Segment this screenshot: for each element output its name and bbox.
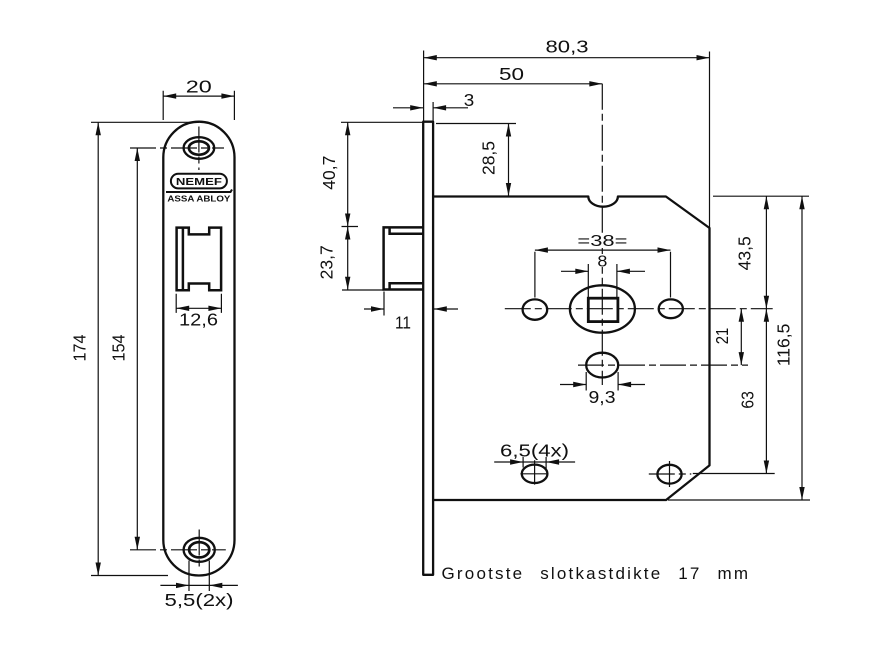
spindle square 8mm [588,298,618,321]
faceplate front plate outline [163,122,234,576]
dim 63 bottom extension [693,473,775,475]
dim 80,3 line [424,57,710,59]
spindle follower ellipse [570,285,635,332]
right M4 hole [659,299,683,318]
lower hole 9,3 [586,353,618,378]
latch cutout inner edge [182,228,185,291]
svg-text:ASSA ABLOY: ASSA ABLOY [167,194,230,204]
bottom-right hole centerline vertical [649,461,692,488]
latch cutout [177,228,222,291]
svg-text:43,5: 43,5 [735,236,755,270]
dim 43,5 top extension [713,195,809,197]
svg-text:12,6: 12,6 [179,310,218,330]
svg-text:80,3: 80,3 [546,37,589,57]
dim 6,5(4x) extension lines [523,457,546,470]
faceplate side strip [423,122,433,575]
bottom hole centerline vertical [198,530,200,568]
top hole centerline horizontal [130,147,224,149]
lower hole centerline horizontal [578,364,748,366]
svg-text:20: 20 [186,77,212,97]
bottom-right 6,5 hole [657,465,681,484]
bottom hole centerline horizontal [130,549,226,551]
dim 43,5 line [765,196,767,309]
dim 23,7 line [347,227,349,290]
svg-text:NEMEF: NEMEF [176,176,223,188]
dim 116,5 bottom extension [668,499,810,501]
dim 11 line and arrows [364,308,458,310]
svg-text:21: 21 [712,328,732,345]
latch bolt side view [384,227,424,289]
dim 116,5 line [801,196,803,500]
bottom screw hole outer [184,538,215,562]
svg-text:Grootste slotkastdikte 17 mm: Grootste slotkastdikte 17 mm [442,564,751,583]
bottom-left hole centerlines [520,460,548,484]
dim 8 line and arrows [561,270,645,272]
svg-text:8: 8 [597,254,607,271]
dim 21 line [740,309,742,365]
dim 28,5 line [508,124,510,197]
top screw hole inner [189,141,209,154]
svg-text:40,7: 40,7 [319,156,339,190]
dim 80,3 / 50 left extension [423,51,425,121]
svg-text:5,5(2x): 5,5(2x) [165,590,234,610]
svg-text:=38=: =38= [577,233,627,250]
dim 20 line [163,95,234,97]
top hole centerline vertical [198,127,200,171]
dim 8 extension lines [588,264,617,298]
dim 174 line [97,122,99,575]
NEMEF logo oval [171,174,227,189]
svg-text:116,5: 116,5 [774,324,794,367]
lock case outline [433,197,709,501]
dim 12,6 line [176,307,221,309]
dim 63 line [765,309,767,474]
dim 12,6 extension lines [176,294,221,313]
left M4 hole [523,299,548,319]
svg-text:28,5: 28,5 [478,141,498,175]
dim 9,3 extension lines [586,372,618,391]
dim 40,7 line [347,122,349,226]
svg-text:50: 50 [499,64,524,84]
dim 20 extension lines [163,91,234,120]
svg-text:3: 3 [464,90,475,110]
vertical centerline x=602 [601,84,603,385]
dim 40,7 top extension [341,121,423,123]
dim 3 line and arrows [393,107,468,109]
dim 9,3 line and arrows [560,384,645,386]
dim 174 extension top [91,121,199,123]
dim 23,7 bottom extension [342,289,384,291]
dim 3 extension [432,102,434,121]
bottom screw hole inner [189,542,209,557]
dim =38= extension lines [535,252,671,298]
dim 50 line [424,83,603,85]
dim 5,5(2x) extension lines [189,561,209,592]
svg-text:6,5(4x): 6,5(4x) [500,441,569,461]
svg-text:174: 174 [70,334,90,361]
dim =38= line [535,249,671,251]
svg-text:154: 154 [108,334,128,361]
dim 40,7/23,7 middle extension tick [342,226,359,228]
top screw hole outer [184,137,215,159]
dim 154 line [136,148,138,550]
dim 28,5 top extension [436,123,516,125]
dim 6,5(4x) line and arrows [494,461,575,463]
bottom-left 6,5 hole [522,465,548,483]
svg-text:63: 63 [737,391,757,409]
ASSA ABLOY underline [166,190,232,193]
dim 11 extension [383,292,385,316]
back edge extension [709,52,711,229]
svg-text:23,7: 23,7 [317,245,337,279]
horizontal centerline through holes [505,308,773,310]
svg-text:11: 11 [395,313,411,333]
dim 174 extension bottom [91,575,168,577]
dim 5,5(2x) line [160,584,238,586]
svg-text:9,3: 9,3 [589,387,616,407]
